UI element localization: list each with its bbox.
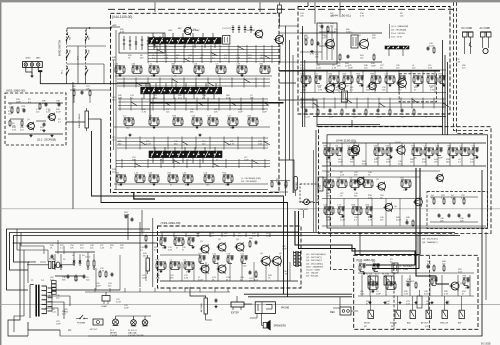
svg-text:BW: BW — [458, 323, 461, 325]
resistor — [368, 281, 378, 283]
wire staircase B2 — [299, 211, 420, 269]
svg-text:4.7K: 4.7K — [227, 256, 232, 258]
wire bottom left corner runs — [8, 243, 28, 336]
wire heavy B+ rail — [150, 102, 284, 104]
svg-text:4.7K: 4.7K — [310, 53, 315, 55]
svg-text:MW: MW — [70, 49, 72, 53]
switch wafer SSB — [442, 310, 447, 318]
resistor ac input row — [27, 264, 49, 266]
lamp PL-3 dial — [142, 320, 148, 326]
wire slim pot x47 — [417, 296, 422, 308]
resistor — [317, 109, 319, 111]
connector MID terminal — [30, 63, 33, 66]
svg-text:Q4 : 2SC460(B): Q4 : 2SC460(B) — [391, 30, 407, 32]
svg-text:LIGHT: LIGHT — [101, 306, 108, 308]
wire gang2 stubs — [143, 94, 145, 99]
svg-text:100P: 100P — [96, 285, 101, 287]
ground — [26, 67, 32, 74]
capacitor line filter — [125, 214, 127, 216]
capacitor padder bank — [232, 25, 234, 33]
svg-text:2.2K: 2.2K — [236, 57, 241, 59]
svg-text:EXTSP: EXTSP — [231, 312, 239, 315]
svg-text:2.2K: 2.2K — [324, 207, 329, 209]
svg-text:100P: 100P — [366, 89, 371, 91]
resistor — [463, 198, 465, 200]
svg-text:AC: AC — [68, 329, 72, 332]
svg-text:5.6K: 5.6K — [329, 76, 334, 78]
wire supply bus 4 — [14, 242, 158, 244]
svg-text:D2: D2 — [63, 259, 65, 261]
resistor — [9, 120, 11, 122]
svg-text:PHONE: PHONE — [281, 308, 290, 310]
coil bar antenna — [385, 46, 409, 49]
resistor — [17, 107, 19, 109]
svg-text:AC CORD: AC CORD — [480, 27, 491, 30]
svg-text:Q1,3 : 2SA562(M): Q1,3 : 2SA562(M) — [391, 25, 409, 28]
svg-text:(X52-1060-00): (X52-1060-00) — [6, 89, 25, 93]
svg-text:(X49-1090-00): (X49-1090-00) — [161, 221, 181, 225]
svg-text:100P: 100P — [244, 159, 249, 161]
svg-text:5.6K: 5.6K — [346, 31, 351, 33]
svg-text:5.6K: 5.6K — [258, 143, 263, 145]
wire speaker wires — [262, 313, 264, 325]
wire x4415 left verticals — [302, 26, 304, 127]
resistor — [305, 39, 307, 41]
resistor — [431, 277, 438, 279]
transistor Q2 het — [359, 39, 368, 48]
resistor — [443, 198, 445, 200]
resistor agc chain — [70, 89, 110, 91]
svg-text:MAIN TUNING: MAIN TUNING — [78, 113, 81, 128]
connector GND terminal — [24, 63, 27, 66]
wire x44-x46 vertical — [351, 120, 353, 127]
transformer T1 power — [35, 285, 37, 317]
wire row2 base — [114, 126, 270, 128]
wire meter box buses — [430, 196, 478, 198]
transistor Q6 x46 extra — [437, 175, 444, 182]
wire tuning output — [91, 118, 101, 120]
svg-text:0.047: 0.047 — [48, 297, 54, 299]
wire row3 mesh — [116, 160, 270, 162]
svg-text:C3 C4: C3 C4 — [85, 257, 90, 259]
svg-text:0.047: 0.047 — [362, 163, 368, 165]
svg-text:0.047: 0.047 — [424, 293, 430, 295]
wire section divider dashed — [331, 162, 354, 270]
svg-text:T4,5 : 5T31: T4,5 : 5T31 — [391, 37, 403, 39]
capacitor — [215, 298, 217, 300]
svg-text:Q1 : 2SC1000GR(L): Q1 : 2SC1000GR(L) — [306, 254, 326, 256]
svg-text:5.6K: 5.6K — [458, 271, 463, 273]
wire nested loops right — [442, 40, 444, 135]
svg-text:0.047: 0.047 — [396, 219, 402, 221]
wire page fold line lower — [0, 304, 500, 306]
svg-text:2.2K: 2.2K — [360, 293, 365, 295]
switch wafer ANL — [410, 310, 415, 318]
resistor — [453, 198, 455, 200]
diode D4 rectifier — [79, 258, 81, 266]
capacitor — [438, 213, 440, 215]
capacitor — [321, 24, 323, 26]
capacitor — [406, 220, 408, 222]
ground — [199, 134, 201, 135]
svg-text:2.2K: 2.2K — [340, 174, 345, 176]
resistor bank row1 — [115, 65, 125, 67]
svg-text:0.047: 0.047 — [116, 301, 122, 303]
transistor Q5 marker — [275, 35, 283, 43]
capacitor — [317, 41, 319, 43]
connector REC jack — [340, 307, 351, 315]
svg-text:100P: 100P — [9, 106, 14, 108]
svg-text:0.047: 0.047 — [56, 111, 62, 113]
svg-text:D4 : 2SC460(B): D4 : 2SC460(B) — [241, 181, 257, 183]
wire if mesh 2 — [117, 137, 268, 139]
svg-text:0.047: 0.047 — [198, 279, 204, 281]
capacitor C filter bank — [87, 260, 89, 262]
capacitor — [463, 277, 470, 279]
svg-text:0.047: 0.047 — [124, 118, 130, 120]
transistor Q3 x49 — [236, 243, 244, 251]
coil T4 — [351, 35, 358, 48]
wire x47 buses — [358, 272, 474, 274]
resistor bank x46 top — [324, 147, 334, 149]
svg-text:2.2K: 2.2K — [404, 293, 409, 295]
wire x49 verticals — [161, 232, 163, 237]
svg-text:100P: 100P — [282, 248, 287, 250]
switch POWER — [80, 315, 83, 319]
resistor — [386, 281, 396, 283]
svg-text:4.7K: 4.7K — [142, 111, 147, 113]
transistor Q3 marker — [339, 83, 346, 90]
wire x46 inner frame — [327, 135, 488, 228]
svg-text:2.2K: 2.2K — [12, 129, 17, 131]
svg-text:S2 CW: S2 CW — [366, 274, 372, 276]
wire top entries — [307, 2, 309, 6]
svg-text:DIAL DIAL: DIAL DIAL — [128, 332, 137, 335]
connector AC plug end — [483, 48, 488, 53]
svg-text:5.6K: 5.6K — [363, 180, 368, 182]
svg-text:4.7K: 4.7K — [100, 270, 105, 272]
resistor — [11, 107, 13, 109]
connector secondary tap strip — [52, 281, 57, 284]
switch wafer BW — [459, 310, 464, 318]
wire row3 base — [114, 183, 268, 185]
connector ANT terminal — [37, 63, 40, 66]
wire x47 switch feeds — [370, 296, 372, 310]
node inner dashed sub-box — [399, 74, 437, 102]
svg-text:4.7K: 4.7K — [386, 148, 391, 150]
svg-text:(CH DW: (CH DW — [110, 335, 117, 337]
svg-text:100P: 100P — [413, 76, 418, 78]
wire bias bus — [8, 102, 63, 104]
svg-text:(X44-1100-00): (X44-1100-00) — [112, 15, 132, 19]
svg-text:METER: METER — [296, 182, 298, 190]
svg-text:5.6K: 5.6K — [357, 76, 362, 78]
diode D3 rectifier — [73, 258, 75, 266]
svg-text:D1,2,8 : V06B: D1,2,8 : V06B — [306, 270, 320, 272]
svg-text:0.047: 0.047 — [324, 148, 330, 150]
svg-text:Q2 : 2SC734(Y): Q2 : 2SC734(Y) — [306, 257, 322, 259]
svg-text:0.047: 0.047 — [115, 66, 121, 68]
svg-text:0.047: 0.047 — [124, 214, 130, 216]
wire staircase B1 — [295, 211, 415, 265]
svg-text:(CW: (CW — [425, 326, 429, 328]
resistor bank x4415 row — [301, 75, 311, 77]
wire inter-board link1 — [279, 82, 296, 84]
svg-text:POWER: POWER — [77, 323, 86, 325]
svg-text:2.2K: 2.2K — [319, 25, 324, 27]
svg-text:4.7K: 4.7K — [230, 143, 235, 145]
resistor — [373, 54, 375, 56]
switch S1-1 band switch — [66, 30, 68, 76]
svg-text:4.7K: 4.7K — [360, 15, 365, 17]
wire right rail — [88, 170, 482, 336]
svg-text:2.2K: 2.2K — [168, 249, 173, 251]
svg-text:D1 : V06B: D1 : V06B — [398, 269, 409, 271]
transistor Q1 x49 — [201, 245, 209, 253]
connector DC plug — [463, 32, 468, 37]
svg-text:Q1 : 2SC945(P): Q1 : 2SC945(P) — [398, 266, 414, 268]
resistor bank row2 — [124, 117, 134, 119]
wire heavy entry pair — [416, 168, 449, 284]
svg-text:AF OUT: AF OUT — [421, 322, 429, 325]
svg-text:100P: 100P — [142, 277, 147, 279]
ground — [431, 301, 433, 302]
wire interbox links — [279, 25, 298, 27]
resistor — [339, 54, 341, 56]
ground — [369, 301, 371, 302]
svg-text:100P: 100P — [124, 307, 129, 309]
wire x49 buses — [160, 231, 298, 233]
transistor Q2 x46 — [397, 146, 405, 154]
wire x49 left outside parts — [139, 222, 141, 287]
svg-text:100P: 100P — [352, 207, 357, 209]
ground — [129, 134, 131, 135]
svg-text:(B2: (B2 — [364, 326, 367, 328]
resistor bank x46 low — [324, 206, 334, 208]
wire inter-board link2 — [279, 100, 317, 127]
svg-text:5.6K: 5.6K — [338, 207, 343, 209]
wire rec wires — [333, 307, 340, 309]
svg-text:5.6K: 5.6K — [431, 278, 436, 280]
speaker SP1 — [263, 323, 267, 329]
resistor — [327, 26, 329, 28]
svg-text:D1,2,5,6 : 1S2473(M) D3,4 : 1: D1,2,5,6 : 1S2473(M) D3,4 : 1N60 — [422, 235, 456, 237]
wire x46 top double feed — [317, 124, 380, 126]
transistor Q4 x49 — [201, 265, 209, 273]
filter FIL1 block — [368, 276, 378, 285]
wire lower mesh x4415 — [300, 98, 446, 100]
svg-text:5.6K: 5.6K — [334, 89, 339, 91]
wire x46-x47 link — [417, 232, 419, 255]
svg-text:100P: 100P — [348, 67, 353, 69]
svg-text:Q5,6 : 2SA499(Y): Q5,6 : 2SA499(Y) — [306, 265, 324, 268]
wire x49 inner verticals — [145, 262, 147, 281]
wire af gain leads — [190, 287, 206, 298]
wire phone riser — [247, 282, 249, 294]
switch S1-2 band switch — [85, 30, 87, 76]
svg-text:4.7K: 4.7K — [324, 180, 329, 182]
svg-text:(BFO: (BFO — [391, 326, 396, 328]
svg-text:D3 : 1S1555: D3 : 1S1555 — [306, 273, 319, 275]
transistor Q5 x49 — [218, 265, 226, 273]
wire row2 mesh — [118, 98, 268, 100]
svg-text:100P: 100P — [225, 185, 230, 187]
svg-text:OSC: OSC — [168, 30, 173, 32]
board X44-1100-00 — [111, 13, 280, 192]
lamp PL-2 dial — [131, 320, 137, 326]
transistor Q2 x49 — [218, 243, 226, 251]
svg-text:BAL MOD: BAL MOD — [406, 280, 415, 283]
capacitor — [407, 282, 409, 284]
svg-text:100P: 100P — [371, 65, 376, 67]
fuse F1 — [49, 261, 51, 268]
wire top riser — [141, 210, 143, 232]
svg-text:100P: 100P — [336, 148, 341, 150]
svg-text:0.047: 0.047 — [184, 262, 190, 264]
svg-text:(CH DW (CH LEW: (CH DW (CH LEW — [128, 335, 144, 337]
resistor bank x49 top — [160, 237, 167, 239]
wire x47 inner verticals — [361, 275, 363, 296]
ground — [311, 50, 313, 51]
ground — [384, 301, 386, 302]
svg-text:MW: MW — [89, 49, 91, 53]
svg-text:Q : 2SC460(B) (OR): Q : 2SC460(B) (OR) — [241, 178, 261, 180]
wire top entries x44 — [154, 2, 156, 12]
transformer T5 small — [341, 91, 347, 102]
svg-text:2.2K: 2.2K — [184, 277, 189, 279]
resistor bank x49 extra — [199, 255, 206, 257]
capacitor — [43, 122, 45, 124]
svg-text:4.7K: 4.7K — [430, 89, 435, 91]
svg-text:100P: 100P — [426, 303, 431, 305]
svg-text:4.7K: 4.7K — [444, 293, 449, 295]
wire page fold line upper — [0, 208, 500, 210]
svg-text:0.047: 0.047 — [377, 116, 383, 118]
wire inter-board link3 — [279, 160, 294, 193]
wire secondary drops — [54, 254, 56, 262]
wire emitter parts — [10, 118, 24, 120]
board X44-1150-01 — [298, 7, 450, 115]
svg-text:Q3 : 2SC713(Y): Q3 : 2SC713(Y) — [422, 238, 438, 240]
transistor Q3 x46 — [357, 177, 364, 184]
board X47-1080-00 — [354, 255, 478, 329]
potentiometer VOL edge — [318, 177, 323, 191]
capacitor — [58, 102, 60, 104]
wire jack stubs — [94, 288, 96, 292]
node METER pill label — [294, 176, 298, 190]
transistor Q1 marker — [28, 123, 35, 130]
svg-text:0.047: 0.047 — [305, 116, 311, 118]
svg-text:4.7K: 4.7K — [461, 197, 466, 199]
ground — [415, 301, 417, 302]
switch wafer MODE — [368, 310, 373, 318]
svg-text:SW: SW — [70, 37, 72, 40]
wire x46 left solid vertical — [315, 130, 317, 232]
svg-text:BAND SWITCH: BAND SWITCH — [59, 40, 62, 56]
wire x46 bottom outlet — [359, 232, 361, 255]
svg-text:0.047: 0.047 — [146, 143, 152, 145]
resistor bank x46 mid — [324, 179, 334, 181]
switch wafer SIGNAL — [395, 310, 400, 318]
svg-text:Q3 : 2SC735(C): Q3 : 2SC735(C) — [306, 260, 322, 262]
wire light wiring — [105, 292, 107, 296]
ground — [446, 301, 448, 302]
capacitor power extra — [51, 254, 53, 256]
wire power wiring — [52, 289, 120, 291]
ground — [399, 301, 401, 302]
ground — [215, 305, 217, 306]
svg-text:5.6K: 5.6K — [337, 180, 342, 182]
svg-text:SSB-CW: SSB-CW — [440, 323, 448, 325]
resistor — [249, 241, 251, 243]
transistor Q4 x46 — [385, 204, 393, 212]
svg-text:C1 C3 C5: C1 C3 C5 — [222, 28, 232, 30]
coil tuning gang L2 — [141, 87, 222, 94]
svg-text:5.6K: 5.6K — [302, 89, 307, 91]
ground — [30, 134, 32, 135]
wire supply bus 2 — [10, 233, 456, 271]
svg-text:2.2K: 2.2K — [118, 97, 123, 99]
coil antenna sub-box — [119, 33, 165, 53]
svg-text:AF GAIN: AF GAIN — [200, 303, 203, 312]
wire agc drop — [73, 97, 75, 103]
svg-text:4.7K: 4.7K — [332, 67, 337, 69]
board X49-1090-00 — [158, 226, 302, 288]
svg-text:4.7K: 4.7K — [283, 273, 288, 275]
svg-text:0.047: 0.047 — [439, 76, 445, 78]
svg-text:0.047: 0.047 — [340, 219, 346, 221]
transistor Q4 marker — [255, 30, 263, 38]
transistor Q7 output — [273, 257, 282, 266]
capacitor top trimmer — [278, 5, 282, 13]
wire transformer primary — [27, 262, 29, 283]
potentiometer main tuning — [85, 111, 88, 128]
volume pot — [146, 258, 149, 271]
svg-text:2.2K: 2.2K — [456, 61, 461, 63]
wire agc meter link — [270, 180, 290, 182]
wire power risers — [57, 240, 59, 254]
wire mid buses — [300, 69, 446, 71]
connector EXT SP jack — [231, 302, 244, 307]
connector PHONE jack — [255, 302, 275, 314]
coil tuning gang L3 — [149, 151, 222, 158]
capacitor — [347, 54, 349, 56]
wire below box bus — [313, 116, 446, 118]
wire heavy b+ entry — [279, 70, 440, 72]
wire if mesh 1 — [117, 78, 270, 80]
transistor Q3 osc — [184, 27, 191, 34]
svg-text:MODE: MODE — [364, 323, 371, 325]
wire ac leads — [482, 37, 484, 48]
wire meter drop — [303, 210, 305, 218]
svg-text:100P: 100P — [201, 266, 206, 268]
filter FIL2 block — [384, 276, 394, 285]
diode D1 rectifier — [54, 262, 56, 270]
svg-text:SPEAKERS: SPEAKERS — [274, 325, 287, 328]
svg-text:100P: 100P — [262, 111, 267, 113]
capacitor — [23, 108, 25, 110]
svg-text:100P: 100P — [116, 175, 121, 177]
wire lamp feeds — [133, 316, 135, 320]
coil pb osc — [392, 263, 398, 273]
svg-text:100P: 100P — [326, 195, 331, 197]
wire row1 base — [115, 75, 272, 77]
svg-text:2.2K: 2.2K — [100, 247, 105, 249]
wire gang3 stubs — [152, 158, 154, 163]
wire power extra wiring — [17, 229, 48, 250]
svg-text:Q4 : 2SA495(Y): Q4 : 2SA495(Y) — [422, 241, 438, 244]
svg-text:2.2K: 2.2K — [164, 57, 169, 59]
